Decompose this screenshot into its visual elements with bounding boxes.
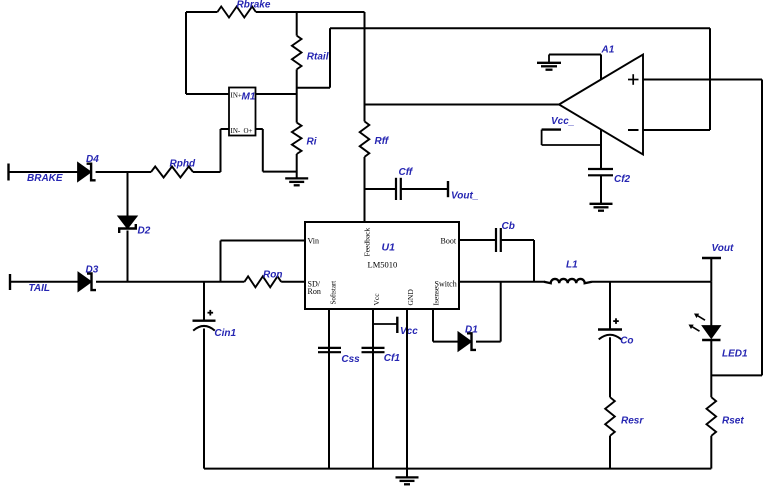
wire D4 to Rphd with D2 tap: [96, 171, 151, 173]
label Cf1: [384, 353, 401, 364]
label Vout_: [451, 191, 479, 202]
label Rbrake: [237, 0, 271, 11]
wire LED feedback corner to A1 plus: [711, 80, 762, 376]
wire A1 output to Rff node: [365, 104, 560, 106]
svg-text:Cf1: Cf1: [384, 353, 401, 364]
LED LED1: [689, 314, 721, 341]
svg-text:Cff: Cff: [399, 167, 414, 178]
pin O+ of M1: [244, 127, 253, 135]
svg-text:Vout: Vout: [712, 243, 735, 254]
wire A1 Vcc tap: [600, 130, 602, 170]
wire Rtail bottom to node: [296, 69, 298, 94]
wire A1 noninverting input: [643, 79, 762, 81]
svg-text:LED1: LED1: [722, 349, 748, 360]
wire BRAKE to D4: [9, 171, 78, 173]
label Cff: [399, 167, 414, 178]
resistor Rbrake: [217, 7, 256, 18]
wire M1 O+ lead: [256, 129, 297, 172]
resistor Rset: [707, 397, 717, 436]
terminal TAIL: [9, 274, 11, 290]
svg-text:Ron: Ron: [263, 269, 282, 280]
svg-text:Feedback: Feedback: [363, 228, 372, 257]
wire M1 IN- lead: [221, 129, 230, 167]
terminal Vout_: [447, 181, 449, 197]
svg-text:D1: D1: [465, 324, 478, 335]
pin GND of U1: [406, 289, 415, 306]
wire Rff bottom to feedback: [364, 157, 366, 222]
svg-text:IN-: IN-: [231, 127, 241, 135]
svg-text:Softstart: Softstart: [330, 281, 338, 305]
capacitor Cin1: [193, 310, 216, 331]
diode D1: [458, 332, 476, 351]
ground under Ri: [285, 178, 308, 185]
label Rset: [722, 416, 744, 427]
svg-text:Cf2: Cf2: [614, 174, 631, 185]
capacitor Cb: [496, 228, 501, 252]
svg-text:M1: M1: [242, 92, 256, 103]
wire TAIL to D3: [10, 281, 78, 283]
wire Ron to SD/Ron pin: [281, 281, 305, 283]
op-amp block M1 outline: [229, 88, 256, 136]
wire D2 anode lead: [127, 172, 129, 216]
svg-text:GND: GND: [406, 289, 415, 306]
svg-text:Rbrake: Rbrake: [237, 0, 271, 11]
svg-text:D2: D2: [138, 226, 151, 237]
wire Cff left lead: [365, 188, 397, 190]
wire GND pin lead: [406, 309, 408, 477]
label Rphd: [170, 159, 196, 170]
wire Cff right lead: [401, 188, 448, 190]
wire Cf2 to ground: [600, 175, 602, 204]
wire Vcc pin lead: [372, 309, 374, 469]
label Cf2: [614, 174, 631, 185]
pin Feedback of U1: [363, 228, 372, 257]
supply Vcc_ for A1: [542, 130, 601, 145]
wire Cb to switch node: [501, 240, 534, 282]
label TAIL: [29, 283, 50, 294]
wire Co to Resr: [609, 337, 611, 397]
svg-text:Rtail: Rtail: [307, 51, 329, 62]
label Rtail: [307, 51, 329, 62]
svg-text:L1: L1: [566, 259, 578, 270]
pin IN+ of M1: [231, 91, 242, 99]
inductor L1: [544, 279, 592, 283]
wire Co top lead: [609, 282, 611, 330]
wire Rtail top lead: [296, 12, 298, 36]
wire Ri bottom lead: [296, 154, 298, 178]
wire Rphd to M1 IN-: [193, 167, 221, 173]
label A1: [601, 45, 615, 56]
wire A1 top tap to ground: [549, 55, 601, 80]
capacitor Cf2: [588, 169, 613, 175]
label Ron: [263, 269, 282, 280]
svg-text:O+: O+: [244, 127, 253, 135]
resistor Resr: [605, 397, 615, 436]
wire M1 IN+ lead left: [186, 93, 229, 95]
resistor Rphd: [151, 167, 193, 178]
label Cin1: [214, 328, 236, 339]
wire ground bus: [204, 468, 711, 470]
ground at U1 GND: [396, 477, 419, 484]
pin Switch of U1: [435, 279, 457, 288]
ground at A1 top: [537, 55, 561, 70]
label D2: [138, 226, 151, 237]
resistor Ri: [292, 123, 302, 154]
wire Switch pin to L1: [459, 281, 545, 283]
wire Vin riser: [221, 241, 306, 282]
terminal BRAKE: [7, 164, 9, 181]
label Co: [620, 336, 633, 347]
pin Softstart of U1: [330, 281, 338, 305]
wire D2 cathode to TAIL rail: [127, 231, 129, 282]
label Rff: [375, 136, 390, 147]
ground under Cf2: [590, 204, 613, 211]
wire Resr bottom lead: [609, 436, 611, 469]
svg-text:Rset: Rset: [722, 416, 744, 427]
svg-text:Cb: Cb: [502, 221, 515, 232]
svg-text:Cin1: Cin1: [214, 328, 236, 339]
pin Vcc of U1: [372, 293, 381, 306]
svg-text:Vcc_: Vcc_: [551, 116, 575, 127]
svg-text:LM5010: LM5010: [368, 259, 398, 269]
capacitor Co: [598, 318, 622, 339]
label Vcc_: [551, 116, 575, 127]
resistor Rff: [360, 121, 370, 156]
label Cb: [502, 221, 515, 232]
label D1: [465, 324, 478, 335]
pin Boot of U1: [441, 236, 457, 245]
svg-text:Css: Css: [341, 354, 360, 365]
wire Boot lead: [459, 239, 496, 241]
capacitor Css: [318, 348, 341, 352]
svg-text:Rphd: Rphd: [170, 159, 196, 170]
svg-text:Vcc: Vcc: [400, 326, 418, 337]
svg-text:TAIL: TAIL: [29, 283, 50, 294]
op-amp A1: [559, 55, 643, 155]
wire Rbrake right drop to A1 output node: [364, 12, 366, 121]
label Css: [341, 354, 360, 365]
label Vout: [712, 243, 735, 254]
diode D2: [118, 216, 137, 233]
svg-text:Ri: Ri: [307, 137, 317, 148]
svg-text:D3: D3: [86, 265, 99, 276]
wire L1 to Vout node: [592, 281, 711, 283]
wire Cin1 top lead: [203, 282, 205, 321]
wire A1 inverting net top rail: [330, 27, 710, 29]
diode D4: [78, 162, 96, 181]
svg-text:Co: Co: [620, 336, 633, 347]
wire Vout node to LED1: [710, 282, 712, 326]
svg-text:Vout_: Vout_: [451, 191, 479, 202]
diode D3: [78, 272, 96, 291]
label Ri: [307, 137, 317, 148]
capacitor Cf1: [362, 348, 385, 352]
label Resr: [621, 416, 644, 427]
svg-text:Resr: Resr: [621, 416, 644, 427]
wire D3 to Ron: [96, 281, 244, 283]
wire Isense lead to D1: [433, 309, 458, 342]
label D4: [86, 154, 99, 165]
wire Rbrake top rail: [186, 11, 365, 13]
wire Cin1 bottom lead: [203, 329, 205, 469]
svg-text:IN+: IN+: [231, 91, 242, 99]
label BRAKE: [27, 173, 63, 184]
value LM5010: [368, 259, 398, 269]
svg-text:Ron: Ron: [308, 287, 321, 296]
wire Softstart lead: [328, 309, 330, 469]
svg-text:BRAKE: BRAKE: [27, 173, 63, 184]
svg-text:A1: A1: [601, 45, 615, 56]
svg-text:U1: U1: [382, 242, 396, 254]
resistor Rtail: [292, 36, 302, 70]
capacitor Cff: [396, 178, 401, 200]
pin Vin of U1: [308, 236, 320, 245]
pin Isense of U1: [432, 286, 441, 305]
label Vcc: [400, 326, 418, 337]
svg-text:D4: D4: [86, 154, 99, 165]
svg-text:Vcc: Vcc: [372, 293, 381, 306]
label D3: [86, 265, 99, 276]
IC U1 outline: [305, 222, 459, 309]
label M1: [242, 92, 256, 103]
svg-text:Rff: Rff: [375, 136, 390, 147]
pin IN- of M1: [231, 127, 241, 135]
supply Vcc tap below U1: [373, 317, 397, 333]
wire Ri top lead: [296, 94, 298, 123]
pin SD/Ron of U1: [308, 279, 321, 296]
wire A1 inverting input: [643, 28, 710, 130]
terminal Vout: [702, 258, 721, 282]
wire LED1 cathode node: [710, 340, 712, 397]
node Rtail-Ri junction wire to A1 minus riser: [297, 28, 330, 87]
wire left side of Rbrake loop: [185, 12, 187, 94]
svg-text:Isense: Isense: [432, 286, 441, 305]
label U1: [382, 242, 396, 254]
svg-text:Vin: Vin: [308, 236, 320, 245]
label LED1: [722, 349, 748, 360]
svg-text:Boot: Boot: [441, 236, 457, 245]
resistor Ron: [244, 276, 281, 287]
wire M1 IN+ lead right: [256, 93, 297, 95]
wire D1 cathode to switch node: [476, 282, 501, 342]
label L1: [566, 259, 578, 270]
wire Rset bottom lead: [710, 436, 712, 469]
